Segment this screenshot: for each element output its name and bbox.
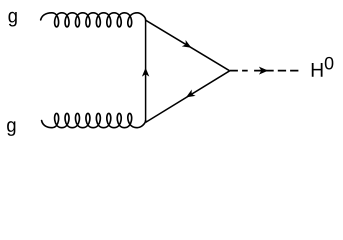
label H (Higgs) xyxy=(312,63,323,77)
arrow on left edge (up) xyxy=(142,68,149,77)
gluon g2 (bottom) xyxy=(42,113,146,127)
quark loop: top edge xyxy=(146,20,230,71)
label g (top gluon) xyxy=(9,12,17,27)
arrow on Higgs line xyxy=(259,67,268,75)
arrow on bottom edge xyxy=(186,90,196,98)
dashed Higgs propagator xyxy=(230,70,299,72)
gluon g1 (top) xyxy=(41,13,146,27)
label 0 (superscript) xyxy=(325,57,334,70)
label g (bottom gluon) xyxy=(7,121,15,136)
quark loop: left edge (vertical) xyxy=(145,20,147,123)
arrow on top edge xyxy=(182,40,192,48)
quark loop: bottom edge xyxy=(146,71,230,123)
